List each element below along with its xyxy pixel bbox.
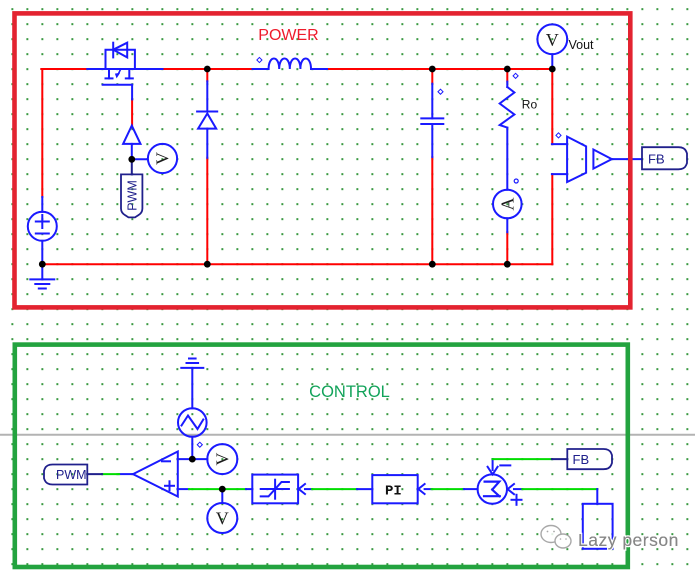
- node: resistor top junction: [504, 66, 511, 73]
- svg-text:PWM: PWM: [125, 180, 139, 211]
- svg-text:PI: PI: [385, 484, 402, 500]
- node: ammeter bottom junction: [504, 261, 511, 268]
- node: source bottom junction: [39, 261, 46, 268]
- wire: output to PWM tag (navy): [87, 473, 102, 475]
- svg-text:V: V: [216, 509, 229, 529]
- wire: PI output stub (blue): [357, 488, 372, 490]
- wire: FB tag stub (navy): [552, 458, 567, 460]
- comparator U2: [133, 452, 178, 497]
- wire: Vout probe stub (blue): [551, 54, 553, 69]
- wire: gating node vertical (blue): [131, 144, 133, 159]
- wire: limiter to PI green segment: [312, 488, 357, 490]
- svg-text:A: A: [497, 198, 517, 211]
- wire: resistor to ammeter (blue): [506, 128, 508, 190]
- polarity marker (carrier): [197, 442, 202, 447]
- wire: top rail segment MOSFET to inductor (red): [163, 68, 253, 70]
- ground (power): [30, 264, 54, 288]
- wire: summer top input vertical (blue): [492, 459, 494, 470]
- wire: gate drive vertical (red): [131, 99, 133, 125]
- wire: gating node to probe (blue): [132, 158, 148, 160]
- wire: sensor bottom feed (red): [551, 174, 553, 264]
- voltage probe at gate (rotated V): [148, 144, 177, 173]
- wire: into limiter (blue): [246, 488, 252, 490]
- gray page boundary line: [0, 434, 695, 436]
- svg-text:V: V: [546, 30, 559, 50]
- wire: top rail segment source to MOSFET (red): [41, 68, 87, 70]
- net label PWM (gate, vertical tag): [121, 174, 142, 217]
- node: diode top junction: [204, 66, 211, 73]
- wire: limiter to PI (blue+green): [305, 488, 312, 490]
- wire: PI input stub (blue): [425, 488, 432, 490]
- wire: summer plus input (blue): [514, 488, 522, 490]
- wire: comparator output (blue): [119, 473, 133, 475]
- wire: summer output stub (blue): [464, 488, 478, 490]
- gain buffer triangle: [593, 150, 611, 169]
- ground (control, inverted): [181, 359, 203, 409]
- wire: comparator output green segment: [102, 473, 119, 475]
- svg-text:FB: FB: [573, 452, 590, 467]
- node: gate probe junction: [128, 156, 135, 163]
- polarity marker (resistor): [513, 73, 518, 78]
- wire: MOSFET channel horizontal (blue): [87, 68, 162, 70]
- ammeter A1: [493, 179, 522, 218]
- svg-text:Ro: Ro: [522, 98, 538, 112]
- net label FB (power): [642, 147, 687, 169]
- wire: left vertical from top rail to source (red): [41, 69, 43, 197]
- probe on carrier node (rotated V): [207, 444, 237, 474]
- wire: ammeter bottom lead (blue): [506, 218, 508, 232]
- triangle-wave carrier source: [178, 408, 207, 437]
- wire: source bottom lead (blue): [41, 241, 43, 264]
- wire: ammeter to bottom rail (red): [506, 232, 508, 264]
- wire: V probe drop (blue): [221, 489, 223, 503]
- voltage sensor U1: [567, 137, 586, 182]
- node: Vout junction: [549, 66, 556, 73]
- wire: capacitor branch lower (red): [431, 157, 433, 264]
- svg-text:CONTROL: CONTROL: [309, 383, 390, 401]
- wire: capacitor upper lead (blue): [431, 84, 433, 119]
- wire: sensor top feed (red): [551, 69, 553, 144]
- svg-text:Vout: Vout: [569, 38, 595, 52]
- wire: resistor branch upper stub (red): [506, 69, 508, 82]
- diode D1 (freewheeling): [197, 112, 217, 129]
- wire: diode branch lower (red): [206, 158, 208, 264]
- svg-text:POWER: POWER: [258, 27, 318, 44]
- polarity marker (sensor): [556, 133, 561, 138]
- wire: diode branch upper stub (red): [206, 69, 208, 81]
- summing junction: [478, 465, 522, 504]
- wire: diode lower lead (blue): [206, 129, 208, 158]
- PI controller block: [372, 475, 424, 503]
- wire: resistor top lead (blue): [506, 82, 508, 87]
- wire: comparator plus stub (blue): [178, 488, 189, 490]
- svg-text:PWM: PWM: [56, 468, 87, 482]
- wire: bottom rail (red): [42, 263, 552, 265]
- wire: sensor minus stub (blue): [552, 173, 567, 175]
- svg-text:Lazy person: Lazy person: [578, 530, 679, 550]
- wire: sensor plus stub (blue): [552, 143, 567, 145]
- voltage probe on modulation node: [207, 503, 237, 533]
- MOSFET Q1: [103, 43, 135, 85]
- svg-text:FB: FB: [648, 151, 665, 166]
- svg-text:V: V: [212, 453, 232, 466]
- wire: FB to summer green segment: [493, 458, 552, 460]
- capacitor C1: [421, 118, 443, 124]
- node: carrier junction: [189, 456, 196, 463]
- reference source block: [583, 504, 613, 549]
- net label FB (control): [567, 449, 612, 469]
- node: modulation junction: [219, 486, 226, 493]
- wire: comparator minus stub (blue): [178, 458, 207, 460]
- power section box: [15, 13, 631, 307]
- DC voltage source Vin: [28, 212, 57, 241]
- node: diode bottom junction: [204, 261, 211, 268]
- watermark logo: [541, 526, 571, 549]
- control section box: [15, 345, 628, 567]
- wire: top rail segment inductor to sensor tap (red): [327, 68, 552, 70]
- wire: carrier to comparator minus (blue): [191, 437, 193, 459]
- wire: reference source drop (blue): [596, 489, 598, 504]
- wire: source top lead (blue): [41, 197, 43, 212]
- node: capacitor bottom junction: [429, 261, 436, 268]
- node: capacitor top junction: [429, 66, 436, 73]
- polarity marker (capacitor): [438, 89, 443, 94]
- limiter block: [252, 475, 305, 504]
- wire: diode upper lead (blue): [206, 81, 208, 111]
- wire: reference to summer green segment: [522, 488, 597, 490]
- wire: summer to PI green segment: [432, 488, 465, 490]
- wire: plus node green segment: [189, 488, 246, 490]
- polarity marker (inductor): [257, 57, 262, 62]
- inductor L1: [253, 59, 328, 70]
- svg-text:V: V: [153, 152, 173, 165]
- wire: capacitor lower lead (blue): [431, 124, 433, 157]
- net label PWM (control): [44, 465, 87, 485]
- resistor Ro: [500, 87, 515, 128]
- wire: PWM tag stub (navy): [131, 159, 133, 174]
- gate drive arrow (on-off controller): [123, 126, 140, 144]
- wire: gate bar drop (blue): [131, 85, 133, 100]
- wire: capacitor branch upper stub (red): [431, 69, 433, 84]
- wire: sensor output to FB tag (blue): [612, 158, 642, 160]
- voltage probe Vout: [537, 24, 567, 54]
